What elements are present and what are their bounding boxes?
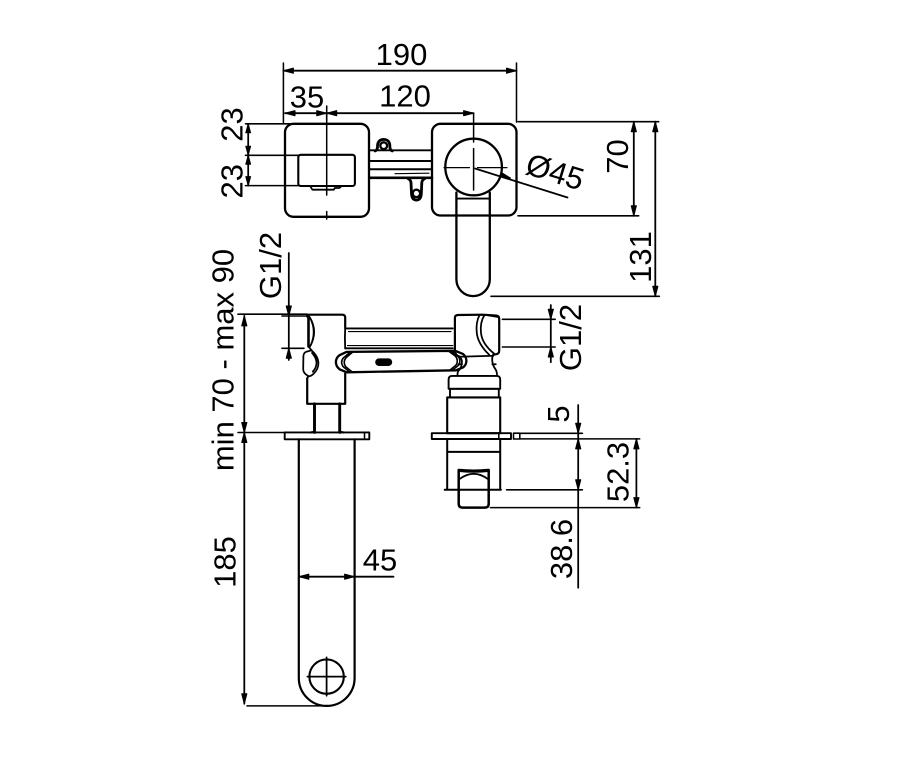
left wall plate (side view)	[285, 432, 370, 439]
nut top thick bar	[459, 469, 488, 473]
spout bottom extension line	[247, 705, 327, 707]
nut bottom extension (52.3)	[491, 507, 640, 509]
band right end chamfer curves	[449, 351, 460, 370]
upper connecting pipe	[369, 149, 432, 151]
svg-text:35: 35	[290, 79, 324, 114]
elbow chamfer crescent arcs	[477, 315, 495, 355]
svg-text:G1/2: G1/2	[253, 232, 288, 299]
left unit upper hex chamfer lens	[307, 317, 310, 347]
svg-text:23: 23	[215, 107, 250, 141]
left wall plate (spout escutcheon)	[285, 124, 369, 217]
leader line for diameter 45	[475, 169, 568, 198]
plate edge extension lines (5 dim)	[521, 432, 583, 434]
right G1/2 dimension	[550, 305, 552, 362]
spout opening rectangle	[298, 155, 355, 186]
lever handle (front)	[456, 193, 489, 297]
circle horizontal centerline dashes	[444, 167, 507, 169]
cartridge ring 1	[449, 376, 501, 389]
right elbow fitting	[455, 315, 499, 357]
nut box bottom extension (38.6)	[507, 489, 583, 491]
spout (side view, below wall plate)	[299, 439, 355, 706]
dimension 23/23 extension lines	[246, 123, 291, 125]
leader arrowhead at circle edge	[500, 173, 510, 178]
top mounting bracket with screw hole	[375, 139, 392, 151]
svg-text:min 70 - max 90: min 70 - max 90	[206, 249, 241, 471]
svg-text:45: 45	[363, 543, 397, 578]
svg-text:23: 23	[215, 164, 250, 198]
left unit stem	[315, 404, 340, 433]
dimension 35/120 line	[285, 112, 474, 114]
svg-text:70: 70	[600, 139, 635, 173]
handle collar line	[456, 198, 489, 200]
dimension 52.3 line	[635, 439, 637, 508]
cartridge ring 2	[450, 389, 499, 398]
right wall plate (side view)	[432, 433, 511, 439]
dimension 45 line	[299, 576, 394, 578]
dimension 23/23 line	[247, 124, 249, 186]
svg-text:190: 190	[376, 37, 428, 72]
bottom mounting bracket with screw hole	[408, 179, 425, 201]
svg-text:Ø45: Ø45	[522, 147, 588, 198]
dimension 70 line	[633, 122, 635, 216]
svg-text:120: 120	[379, 78, 431, 113]
handle bottom extension line	[491, 295, 659, 297]
svg-text:5: 5	[541, 405, 576, 422]
left unit waist between hexagons	[309, 328, 346, 351]
right wall plate end cap	[514, 433, 520, 439]
dimension texts	[206, 37, 659, 588]
black pill label on band	[375, 358, 392, 366]
extension line left (190)	[282, 63, 284, 123]
dimension min70-max90 line	[243, 316, 245, 433]
right wall plate (handle escutcheon)	[432, 124, 517, 216]
stem base flare feet	[311, 431, 344, 434]
valve body below plate	[445, 439, 501, 490]
dimension 185 line	[243, 433, 245, 704]
svg-text:G1/2: G1/2	[553, 304, 588, 371]
lower connecting pipe	[369, 168, 432, 170]
left unit lower hex chamfer (protruding left)	[303, 350, 318, 376]
cartridge nut	[459, 470, 489, 508]
handle centerline	[473, 113, 475, 142]
left unit body	[307, 315, 345, 404]
svg-text:38.6: 38.6	[544, 519, 579, 579]
spout tip below opening	[310, 186, 341, 190]
dimension 70 extension lines	[518, 121, 659, 123]
spout centerline	[326, 113, 328, 195]
plate top extension line	[238, 432, 285, 434]
svg-text:52.3: 52.3	[601, 442, 636, 502]
upper arm (connection bar)	[345, 327, 453, 329]
body top extension line	[238, 313, 307, 315]
left G1/2 dimension	[288, 253, 290, 360]
svg-text:131: 131	[623, 231, 658, 283]
dimension 190 line	[283, 70, 516, 72]
extension line right (190/plate edge)	[516, 63, 518, 122]
lower band (front bar, pointed ends)	[336, 351, 467, 372]
handle escutcheon circle	[445, 139, 502, 196]
cartridge main cylinder	[447, 397, 500, 433]
aerator screw circle with cross	[309, 659, 343, 693]
dimension 5 / 38.6 shared line	[577, 405, 579, 588]
band left end chamfer curves	[342, 352, 353, 371]
elbow top corner tick	[486, 315, 499, 317]
svg-text:185: 185	[208, 536, 243, 588]
elbow neck	[457, 355, 497, 376]
dimension 131 line	[654, 122, 656, 297]
nut dome arc	[460, 474, 488, 479]
